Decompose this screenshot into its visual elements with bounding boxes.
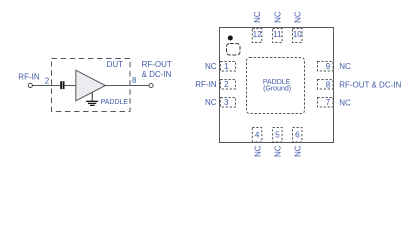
svg-text:3: 3 [224,98,229,107]
svg-text:1: 1 [224,62,229,71]
svg-text:NC: NC [274,145,283,157]
svg-text:PADDLE: PADDLE [101,99,129,106]
svg-text:NC: NC [205,62,217,71]
svg-text:10: 10 [293,30,302,39]
svg-text:8: 8 [326,80,331,89]
svg-text:NC: NC [293,11,302,23]
svg-text:12: 12 [253,30,262,39]
svg-text:9: 9 [326,62,331,71]
svg-text:RF-IN: RF-IN [18,72,40,81]
svg-text:NC: NC [205,98,217,107]
svg-text:2: 2 [45,76,50,85]
svg-text:7: 7 [326,98,331,107]
svg-text:& DC-IN: & DC-IN [142,70,172,79]
svg-text:RF-OUT & DC-IN: RF-OUT & DC-IN [339,80,401,89]
svg-text:NC: NC [339,98,351,107]
svg-text:RF-IN: RF-IN [195,80,217,89]
svg-text:4: 4 [255,131,260,140]
svg-text:11: 11 [273,30,282,39]
svg-text:NC: NC [254,145,263,157]
svg-text:(Ground): (Ground) [263,86,291,93]
svg-text:NC: NC [273,11,282,23]
svg-text:2: 2 [224,80,229,89]
svg-text:8: 8 [132,76,137,85]
svg-text:NC: NC [253,11,262,23]
svg-text:RF-OUT: RF-OUT [142,60,172,69]
svg-text:5: 5 [275,131,280,140]
svg-text:NC: NC [339,62,351,71]
svg-text:DUT: DUT [107,60,124,69]
svg-text:6: 6 [295,131,300,140]
svg-text:NC: NC [294,145,303,157]
